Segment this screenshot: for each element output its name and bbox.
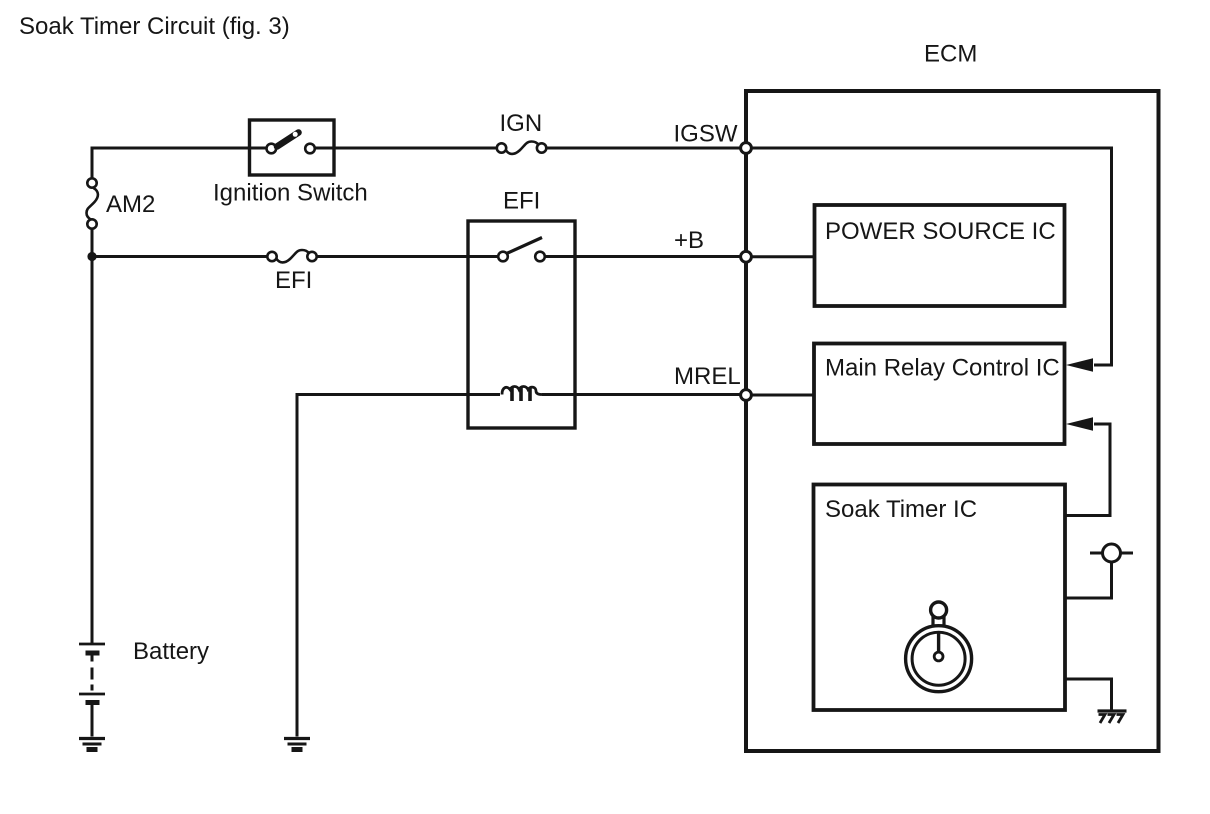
relay EFI box bbox=[468, 221, 575, 428]
wire: +B node to POWER SOURCE IC bbox=[752, 255, 816, 258]
arrow into Main Relay Control IC (bottom) bbox=[1066, 417, 1093, 431]
ground (battery) bbox=[79, 739, 105, 750]
svg-text:Soak Timer IC: Soak Timer IC bbox=[825, 496, 977, 523]
wire: IGN fuse to IGSW node bbox=[546, 147, 743, 150]
POWER SOURCE IC box bbox=[815, 205, 1065, 306]
wire: ignition switch to IGN fuse bbox=[315, 147, 497, 150]
svg-text:IGN: IGN bbox=[500, 110, 543, 137]
fuse EFI bbox=[267, 250, 316, 262]
signal ground (inside ECM) bbox=[1098, 711, 1127, 723]
svg-text:Soak Timer Circuit (fig. 3): Soak Timer Circuit (fig. 3) bbox=[19, 13, 290, 40]
svg-text:ECM: ECM bbox=[924, 41, 977, 68]
svg-text:POWER SOURCE IC: POWER SOURCE IC bbox=[825, 218, 1056, 245]
wire: relay coil to MREL node bbox=[542, 393, 743, 396]
node +B bbox=[741, 251, 752, 262]
Soak Timer IC box bbox=[814, 485, 1066, 711]
svg-text:Ignition Switch: Ignition Switch bbox=[213, 180, 368, 207]
wire: EFI fuse to relay box bbox=[317, 255, 499, 258]
fuse AM2 bbox=[87, 178, 98, 228]
ignition switch SW contacts bbox=[267, 144, 277, 154]
wire: AM2 to battery (left vertical) bbox=[91, 229, 94, 644]
node IGSW bbox=[741, 143, 752, 154]
ground (relay coil return) bbox=[284, 739, 310, 750]
wire: ground column to relay coil row bbox=[297, 395, 500, 737]
svg-text:Battery: Battery bbox=[133, 638, 209, 665]
ECM box bbox=[746, 91, 1159, 751]
svg-text:Main Relay Control IC: Main Relay Control IC bbox=[825, 355, 1060, 382]
wire: Soak Timer IC to arrow into Main Relay Control IC (bottom) bbox=[1065, 424, 1110, 516]
wire: junction to EFI fuse bbox=[92, 255, 268, 258]
relay coil bbox=[502, 387, 542, 402]
svg-text:AM2: AM2 bbox=[106, 191, 155, 218]
connector circle node (right of Soak Timer IC) bbox=[1065, 544, 1133, 598]
wire: relay switch to +B node bbox=[545, 255, 743, 258]
wire: IGSW to arrow column inside ECM bbox=[749, 148, 1112, 365]
svg-text:EFI: EFI bbox=[275, 267, 312, 294]
svg-text:EFI: EFI bbox=[503, 188, 540, 215]
wire: IGN row from left corner to ignition switch bbox=[92, 148, 267, 179]
relay switch lever bbox=[507, 238, 543, 254]
svg-text:IGSW: IGSW bbox=[674, 120, 738, 147]
junction node at EFI row bbox=[87, 252, 96, 261]
ignition switch box bbox=[250, 120, 335, 175]
Main Relay Control IC box bbox=[814, 344, 1065, 445]
wire: MREL node to Main Relay Control IC bbox=[752, 394, 815, 397]
svg-text:MREL: MREL bbox=[674, 363, 741, 390]
battery bbox=[79, 644, 105, 737]
wire: Soak Timer IC to internal ground bbox=[1065, 679, 1112, 711]
fuse IGN bbox=[497, 142, 547, 154]
relay switch contacts bbox=[498, 252, 508, 262]
arrow into Main Relay Control IC (top) bbox=[1066, 358, 1093, 372]
svg-text:+B: +B bbox=[674, 227, 704, 254]
node MREL bbox=[741, 390, 752, 401]
ignition switch lever bbox=[277, 133, 299, 147]
stopwatch icon bbox=[906, 602, 972, 692]
